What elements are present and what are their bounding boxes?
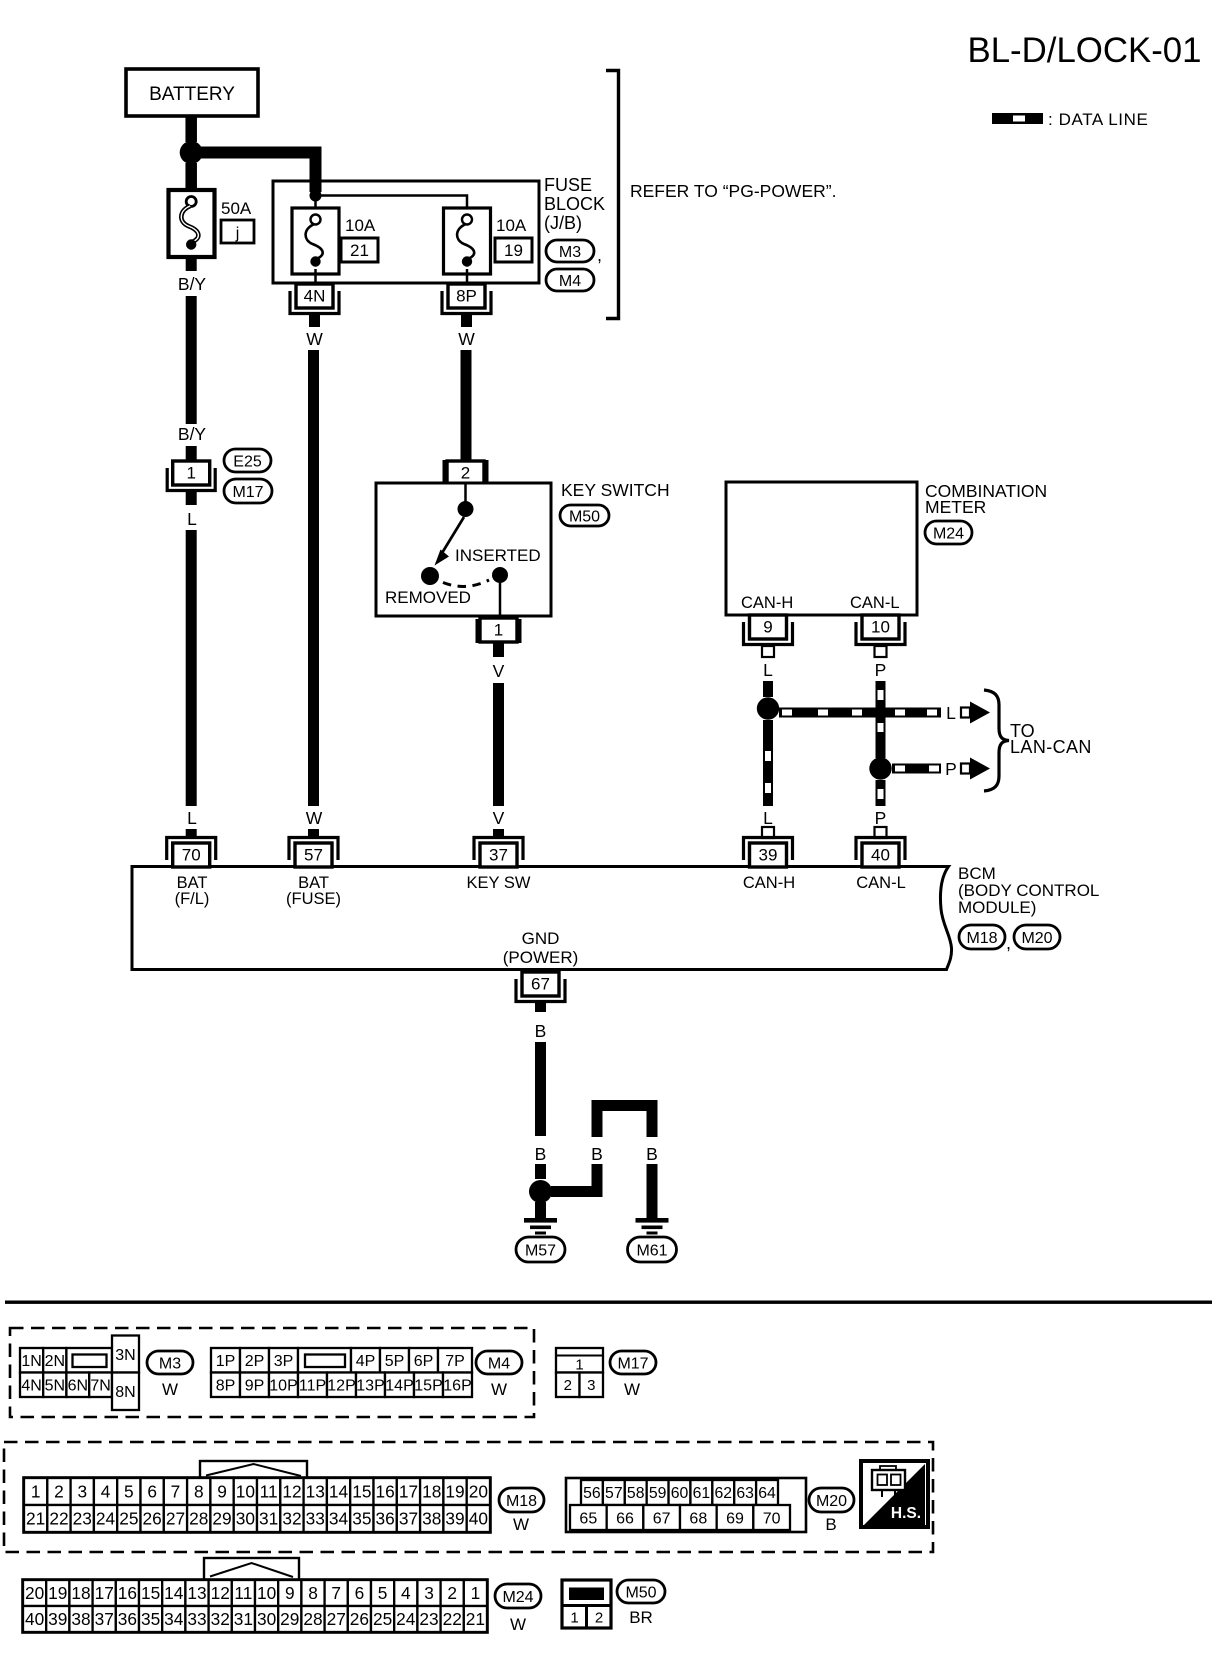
key switch INSERTED contact: [455, 546, 541, 583]
svg-text:12: 12: [211, 1583, 230, 1603]
svg-text:33: 33: [187, 1609, 206, 1629]
BCM label: [958, 864, 1099, 917]
svg-text:67: 67: [531, 975, 550, 994]
svg-text:2: 2: [595, 1610, 603, 1627]
fuse block (J/B) box: [273, 181, 539, 283]
wire E25/M17 to BCM pin 70, L: [186, 492, 197, 838]
svg-text:REMOVED: REMOVED: [385, 588, 471, 607]
svg-text:CAN-H: CAN-H: [743, 874, 795, 892]
svg-text:BLOCK: BLOCK: [544, 194, 605, 214]
CAN-H branch data line to LAN-CAN, L arrow: [779, 702, 990, 724]
connector label M50 detail: [617, 1580, 665, 1627]
svg-text:19: 19: [48, 1583, 67, 1603]
svg-text:11: 11: [260, 1482, 278, 1502]
svg-text:32: 32: [282, 1509, 301, 1529]
svg-text:GND: GND: [522, 929, 560, 948]
fuse block label FUSE BLOCK (J/B): [544, 175, 605, 233]
svg-text:11: 11: [234, 1583, 252, 1603]
svg-text:j: j: [235, 225, 240, 242]
svg-text:M4: M4: [559, 273, 581, 290]
svg-text:5: 5: [378, 1583, 388, 1603]
svg-text:1: 1: [31, 1482, 41, 1502]
wire BCM 67 to ground junction, B: [535, 1002, 547, 1180]
svg-text:15: 15: [141, 1583, 160, 1603]
svg-text:FUSE: FUSE: [544, 175, 592, 195]
svg-text:7: 7: [331, 1583, 341, 1603]
connector M17 pin grid: [556, 1348, 603, 1397]
wire junction to fuse block: [197, 147, 322, 182]
svg-text:16P: 16P: [443, 1378, 471, 1395]
fuse 10A 19: [444, 208, 533, 284]
svg-text:1N: 1N: [21, 1353, 41, 1370]
svg-text:16: 16: [376, 1482, 395, 1502]
svg-text:7: 7: [171, 1482, 181, 1502]
svg-text:W: W: [624, 1380, 640, 1399]
ground symbol M57: [524, 1218, 557, 1235]
svg-text:40: 40: [25, 1609, 44, 1629]
svg-text:1: 1: [494, 621, 503, 640]
svg-text:57: 57: [304, 846, 323, 865]
svg-text:B: B: [825, 1515, 836, 1534]
svg-text:9: 9: [763, 618, 772, 637]
svg-text:37: 37: [489, 846, 508, 865]
svg-text:3N: 3N: [115, 1347, 135, 1364]
brace TO LAN-CAN: [984, 690, 1092, 791]
svg-text:10: 10: [871, 618, 890, 637]
svg-text:P: P: [875, 808, 887, 828]
connector label M24: [925, 521, 972, 544]
svg-text:8P: 8P: [216, 1378, 236, 1395]
wire to fuse 19: [316, 196, 468, 215]
svg-text:22: 22: [49, 1509, 68, 1529]
separator line: [5, 1301, 1212, 1304]
svg-text:19: 19: [504, 241, 523, 260]
svg-text:1P: 1P: [216, 1353, 236, 1370]
connector M18 pin grid: [24, 1461, 490, 1532]
BCM pin labels: [175, 874, 906, 967]
svg-text:2P: 2P: [245, 1353, 265, 1370]
connector pin 1 key switch: [477, 618, 520, 643]
svg-text:18: 18: [422, 1482, 441, 1502]
connector label M4: [546, 269, 594, 291]
svg-text:2: 2: [461, 464, 470, 483]
connector 4N: [290, 284, 339, 314]
svg-text:37: 37: [95, 1609, 114, 1629]
svg-text:60: 60: [671, 1485, 689, 1502]
svg-text:31: 31: [234, 1609, 253, 1629]
key switch common contact: [458, 483, 474, 517]
svg-text:B: B: [646, 1144, 658, 1164]
svg-text:M24: M24: [933, 525, 964, 542]
svg-text:,: ,: [1006, 933, 1011, 953]
svg-text:7N: 7N: [90, 1378, 110, 1395]
svg-text:1: 1: [186, 464, 195, 483]
key switch box: [376, 483, 551, 616]
wire 4N to BCM pin 57, W: [306, 314, 324, 839]
svg-text:25: 25: [373, 1609, 392, 1629]
connector M3 pin grid: [20, 1336, 139, 1411]
svg-text:: DATA LINE: : DATA LINE: [1048, 110, 1148, 129]
junction node at battery feed: [180, 141, 203, 164]
svg-text:14: 14: [164, 1583, 184, 1603]
svg-text:B/Y: B/Y: [178, 274, 207, 294]
svg-text:5P: 5P: [385, 1353, 405, 1370]
svg-text:V: V: [493, 661, 505, 681]
svg-text:13: 13: [306, 1482, 325, 1502]
svg-text:29: 29: [212, 1509, 231, 1529]
svg-text:5N: 5N: [45, 1378, 65, 1395]
svg-text:40: 40: [469, 1509, 488, 1529]
connector 8P: [442, 284, 491, 314]
connector label M18 detail: [499, 1488, 544, 1534]
svg-text:6: 6: [147, 1482, 157, 1502]
svg-text:63: 63: [736, 1485, 754, 1502]
ground label M61: [628, 1237, 677, 1262]
svg-text:M57: M57: [525, 1242, 556, 1259]
svg-text:B: B: [535, 1021, 547, 1041]
junction node inside fuse block: [310, 190, 322, 202]
battery: [126, 69, 258, 116]
svg-text:10A: 10A: [496, 216, 527, 235]
svg-text:27: 27: [327, 1609, 346, 1629]
ground label M57: [516, 1237, 565, 1262]
svg-text:1: 1: [471, 1583, 481, 1603]
svg-text:M18: M18: [506, 1493, 537, 1510]
svg-text:W: W: [510, 1615, 526, 1634]
svg-text:M24: M24: [502, 1589, 533, 1606]
connector 70: [167, 838, 216, 868]
svg-text:40: 40: [871, 846, 890, 865]
dashed group box M18/M20: [4, 1442, 933, 1552]
svg-text:3: 3: [424, 1583, 434, 1603]
svg-text:W: W: [306, 329, 323, 349]
svg-text:H.S.: H.S.: [891, 1505, 921, 1522]
svg-text:11P: 11P: [299, 1378, 326, 1395]
connector label M20: [1014, 925, 1060, 949]
svg-text:66: 66: [616, 1510, 634, 1527]
svg-text:21: 21: [350, 241, 369, 260]
svg-text:30: 30: [257, 1609, 276, 1629]
svg-text:4N: 4N: [304, 287, 326, 306]
svg-text:CAN-L: CAN-L: [850, 594, 900, 612]
svg-text:BL-D/LOCK-01: BL-D/LOCK-01: [968, 31, 1202, 70]
svg-text:2: 2: [447, 1583, 457, 1603]
svg-text:8N: 8N: [115, 1384, 135, 1401]
svg-text:3P: 3P: [274, 1353, 294, 1370]
fusible link 50A (j): [169, 190, 255, 257]
connector 37: [474, 838, 523, 868]
key switch label: [561, 480, 670, 500]
svg-text:33: 33: [306, 1509, 325, 1529]
svg-text:E25: E25: [233, 453, 262, 470]
connector label M17: [224, 479, 272, 503]
svg-text:W: W: [306, 808, 323, 828]
svg-text:8: 8: [308, 1583, 318, 1603]
svg-text:1: 1: [570, 1610, 578, 1627]
wire junction to fusible link 50A: [185, 163, 197, 190]
svg-text:31: 31: [259, 1509, 278, 1529]
svg-text:LAN-CAN: LAN-CAN: [1010, 737, 1092, 757]
svg-text:W: W: [513, 1515, 529, 1534]
svg-text:4P: 4P: [356, 1353, 376, 1370]
connector pin 2 key switch: [444, 460, 487, 485]
svg-text:27: 27: [166, 1509, 185, 1529]
bracket for fuse block note: [606, 71, 619, 319]
svg-text:35: 35: [352, 1509, 371, 1529]
wire junction to ground M57: [535, 1202, 546, 1218]
key switch output wire: [499, 583, 502, 616]
BCM (body control module) box: [132, 867, 952, 970]
svg-text:4N: 4N: [21, 1378, 41, 1395]
svg-text:23: 23: [73, 1509, 92, 1529]
svg-text:58: 58: [627, 1485, 645, 1502]
svg-text:12P: 12P: [327, 1378, 355, 1395]
svg-text:39: 39: [48, 1609, 67, 1629]
svg-text:65: 65: [579, 1510, 597, 1527]
svg-text:M4: M4: [488, 1355, 510, 1372]
svg-text:7P: 7P: [445, 1353, 465, 1370]
fuse 10A 21: [292, 208, 378, 284]
connector 67: [516, 972, 565, 1002]
svg-text:M20: M20: [816, 1493, 847, 1510]
connector 57: [289, 838, 338, 868]
connector label M50: [560, 505, 609, 526]
connector M20 pin grid: [566, 1478, 806, 1532]
svg-text:13: 13: [187, 1583, 206, 1603]
svg-text:18: 18: [71, 1583, 90, 1603]
svg-text:26: 26: [350, 1609, 369, 1629]
svg-text:6: 6: [355, 1583, 365, 1603]
svg-text:14: 14: [329, 1482, 349, 1502]
connector label M20 detail: [809, 1488, 854, 1534]
svg-text:24: 24: [396, 1609, 416, 1629]
key switch wiper arrow: [435, 517, 465, 566]
svg-text:13P: 13P: [356, 1378, 384, 1395]
svg-text:3: 3: [587, 1377, 595, 1394]
svg-text:16: 16: [118, 1583, 137, 1603]
svg-text:BATTERY: BATTERY: [149, 84, 235, 105]
svg-text:34: 34: [164, 1609, 184, 1629]
wire 8P to key switch pin 2, W: [458, 314, 475, 462]
svg-text:METER: METER: [925, 497, 986, 517]
svg-text:V: V: [493, 808, 505, 828]
svg-text:BR: BR: [629, 1608, 653, 1627]
svg-text:M50: M50: [625, 1584, 656, 1601]
svg-text:2N: 2N: [45, 1353, 65, 1370]
svg-text:M17: M17: [232, 484, 263, 501]
svg-text:(F/L): (F/L): [175, 890, 210, 908]
svg-text:50A: 50A: [221, 199, 252, 218]
svg-text:M18: M18: [966, 930, 997, 947]
svg-text:38: 38: [71, 1609, 90, 1629]
connector label M17 detail: [610, 1351, 656, 1399]
wire from battery to junction node: [185, 116, 197, 142]
connector 40: [856, 838, 905, 868]
svg-text:28: 28: [189, 1509, 208, 1529]
svg-text:10A: 10A: [345, 216, 376, 235]
ground symbol M61: [636, 1218, 669, 1235]
svg-text:8P: 8P: [456, 287, 477, 306]
CAN-L data line from meter pin 10 to BCM pin 40, P: [869, 646, 891, 838]
svg-text:KEY SW: KEY SW: [467, 874, 531, 892]
svg-text:29: 29: [280, 1609, 299, 1629]
svg-text:17: 17: [95, 1583, 114, 1603]
CAN-H data line from meter pin 9 to BCM pin 39, L: [757, 646, 779, 838]
combination meter box: [726, 482, 917, 615]
svg-text:15P: 15P: [414, 1378, 442, 1395]
svg-text:68: 68: [689, 1510, 707, 1527]
svg-text:W: W: [491, 1380, 507, 1399]
svg-text:4: 4: [401, 1583, 411, 1603]
note REFER TO PG-POWER: [630, 181, 836, 201]
dashed group box M3/M4: [10, 1328, 534, 1417]
svg-text:39: 39: [445, 1509, 464, 1529]
ground junction node: [529, 1180, 552, 1203]
connector label M18: [959, 925, 1011, 953]
H.S. hand symbol icon: [861, 1461, 928, 1527]
svg-text:2: 2: [54, 1482, 64, 1502]
diagram title BL-D/LOCK-01: [968, 31, 1202, 70]
connector pin 10: [856, 615, 905, 645]
svg-text:INSERTED: INSERTED: [455, 546, 541, 565]
svg-text:22: 22: [443, 1609, 462, 1629]
svg-text:(FUSE): (FUSE): [286, 890, 341, 908]
svg-text:36: 36: [376, 1509, 395, 1529]
svg-text:B: B: [591, 1144, 603, 1164]
svg-text:30: 30: [236, 1509, 255, 1529]
svg-text:KEY SWITCH: KEY SWITCH: [561, 480, 670, 500]
svg-text:1: 1: [575, 1357, 583, 1374]
svg-text:B: B: [535, 1144, 547, 1164]
svg-text:9: 9: [285, 1583, 295, 1603]
wire to fuse 21: [314, 196, 317, 215]
svg-text:(POWER): (POWER): [503, 948, 579, 967]
svg-text:64: 64: [758, 1485, 776, 1502]
svg-text:23: 23: [419, 1609, 438, 1629]
svg-text:9: 9: [217, 1482, 227, 1502]
svg-text:67: 67: [653, 1510, 671, 1527]
svg-text:L: L: [946, 703, 956, 723]
combination meter label: [925, 481, 1047, 517]
svg-text:28: 28: [303, 1609, 322, 1629]
svg-text:M61: M61: [636, 1242, 667, 1259]
svg-text:6P: 6P: [414, 1353, 434, 1370]
svg-text:,: ,: [597, 245, 602, 265]
svg-text:37: 37: [399, 1509, 418, 1529]
svg-text:69: 69: [726, 1510, 744, 1527]
svg-text:M50: M50: [569, 508, 600, 525]
svg-text:REFER TO “PG-POWER”.: REFER TO “PG-POWER”.: [630, 181, 836, 201]
svg-text:W: W: [162, 1380, 178, 1399]
key switch REMOVED contact: [385, 567, 471, 607]
svg-text:8: 8: [194, 1482, 204, 1502]
wire into fuse block: [310, 159, 322, 192]
svg-text:B/Y: B/Y: [178, 424, 207, 444]
connector label M3 detail: [147, 1351, 193, 1399]
svg-text:CAN-L: CAN-L: [856, 874, 906, 892]
svg-text:L: L: [763, 660, 773, 680]
svg-text:61: 61: [693, 1485, 711, 1502]
connector M50 pin grid: [562, 1580, 611, 1628]
svg-text:19: 19: [445, 1482, 464, 1502]
svg-text:57: 57: [605, 1485, 623, 1502]
svg-text:MODULE): MODULE): [958, 898, 1036, 917]
svg-text:62: 62: [714, 1485, 732, 1502]
svg-text:21: 21: [466, 1609, 485, 1629]
svg-text:24: 24: [96, 1509, 116, 1529]
svg-text:M3: M3: [559, 244, 581, 261]
connector 39: [744, 838, 793, 868]
svg-text:5: 5: [124, 1482, 134, 1502]
svg-text:20: 20: [25, 1583, 44, 1603]
svg-text:L: L: [187, 808, 197, 828]
connector pin 9: [744, 615, 793, 645]
svg-text:W: W: [458, 329, 475, 349]
svg-text:CAN-H: CAN-H: [741, 594, 793, 612]
wire branch to ground M61, B B: [551, 1100, 658, 1218]
svg-text:35: 35: [141, 1609, 160, 1629]
svg-text:56: 56: [583, 1485, 601, 1502]
connector label M4 detail: [476, 1351, 522, 1399]
connector label M3: [546, 240, 602, 265]
wire key switch to BCM pin 37, V: [493, 642, 505, 838]
legend: DATA LINE symbol: [992, 110, 1148, 129]
connector M4 pin grid: [211, 1348, 472, 1397]
connector M24 pin grid: [23, 1558, 487, 1632]
svg-text:9P: 9P: [245, 1378, 265, 1395]
svg-text:34: 34: [329, 1509, 349, 1529]
connector label M24 detail: [495, 1584, 541, 1634]
svg-text:26: 26: [143, 1509, 162, 1529]
svg-text:M20: M20: [1021, 930, 1052, 947]
svg-text:39: 39: [759, 846, 778, 865]
svg-text:25: 25: [119, 1509, 138, 1529]
svg-text:2: 2: [564, 1377, 572, 1394]
svg-text:59: 59: [649, 1485, 667, 1502]
svg-text:14P: 14P: [385, 1378, 413, 1395]
svg-text:36: 36: [118, 1609, 137, 1629]
svg-text:38: 38: [422, 1509, 441, 1529]
svg-text:10P: 10P: [269, 1378, 297, 1395]
svg-text:4: 4: [101, 1482, 111, 1502]
svg-text:10: 10: [236, 1482, 255, 1502]
connector label E25: [224, 449, 271, 472]
svg-text:3: 3: [77, 1482, 87, 1502]
svg-text:P: P: [945, 759, 957, 779]
svg-text:M17: M17: [617, 1355, 648, 1372]
CAN-L branch data line to LAN-CAN, P arrow: [892, 758, 990, 780]
svg-text:L: L: [763, 808, 773, 828]
svg-text:M3: M3: [159, 1355, 181, 1372]
svg-text:12: 12: [282, 1482, 301, 1502]
svg-text:10: 10: [257, 1583, 276, 1603]
svg-text:32: 32: [211, 1609, 230, 1629]
svg-text:15: 15: [352, 1482, 371, 1502]
svg-text:21: 21: [26, 1509, 45, 1529]
svg-text:L: L: [187, 509, 197, 529]
wire 50A fuse to E25 connector, B/Y: [178, 257, 207, 461]
svg-text:70: 70: [763, 1510, 781, 1527]
svg-text:20: 20: [469, 1482, 488, 1502]
inline connector E25/M17 pin 1: [167, 461, 215, 491]
svg-text:(J/B): (J/B): [544, 213, 582, 233]
svg-text:6N: 6N: [68, 1378, 88, 1395]
svg-text:P: P: [875, 660, 887, 680]
key switch dashed throw arc: [443, 580, 489, 586]
svg-text:17: 17: [399, 1482, 418, 1502]
svg-text:70: 70: [182, 846, 201, 865]
